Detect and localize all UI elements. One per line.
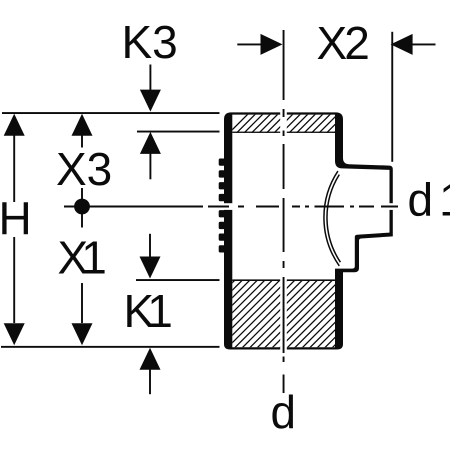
- reference line top (at y=113): [2, 112, 220, 114]
- horizontal centerline d1 axis: solid part: [64, 206, 203, 208]
- svg-text:K3: K3: [122, 16, 178, 68]
- svg-text:K1: K1: [124, 285, 173, 337]
- spigot ribs on left wall: [219, 159, 226, 253]
- reference line bottom (at y=346.8): [1, 346, 220, 348]
- branch bore arc (double line): [324, 171, 339, 266]
- svg-text:H: H: [0, 193, 32, 245]
- fitting body outline (walls, branch, sockets): [224, 112, 393, 349]
- dimension K3 arrows: [140, 65, 161, 180]
- dimension H vertical line with arrows: [4, 114, 25, 345]
- node dot on d1 axis: [74, 199, 90, 215]
- reference line K1 upper (at y=280): [136, 279, 220, 281]
- dimension K1 arrows: [140, 234, 161, 394]
- svg-text:X1: X1: [58, 232, 107, 284]
- horizontal centerline white casing: [205, 203, 398, 210]
- vertical centerline white casing: [280, 110, 287, 353]
- reference line K3 lower (at y=131.5): [137, 131, 220, 133]
- dimension X3/X1 vertical line with arrows: [72, 114, 93, 345]
- dimension X2 at top: [237, 32, 435, 162]
- svg-text:d1: d1: [408, 174, 450, 226]
- svg-text:X3: X3: [56, 143, 112, 195]
- top hatch lower boundary line: [232, 132, 335, 133]
- vertical centerline d axis dash-dot: [283, 30, 285, 393]
- bottom hatch upper boundary line: [232, 279, 335, 281]
- svg-text:d: d: [271, 386, 297, 438]
- horizontal centerline d1 axis: dash-dot part: [208, 206, 398, 208]
- svg-text:X2: X2: [317, 17, 370, 69]
